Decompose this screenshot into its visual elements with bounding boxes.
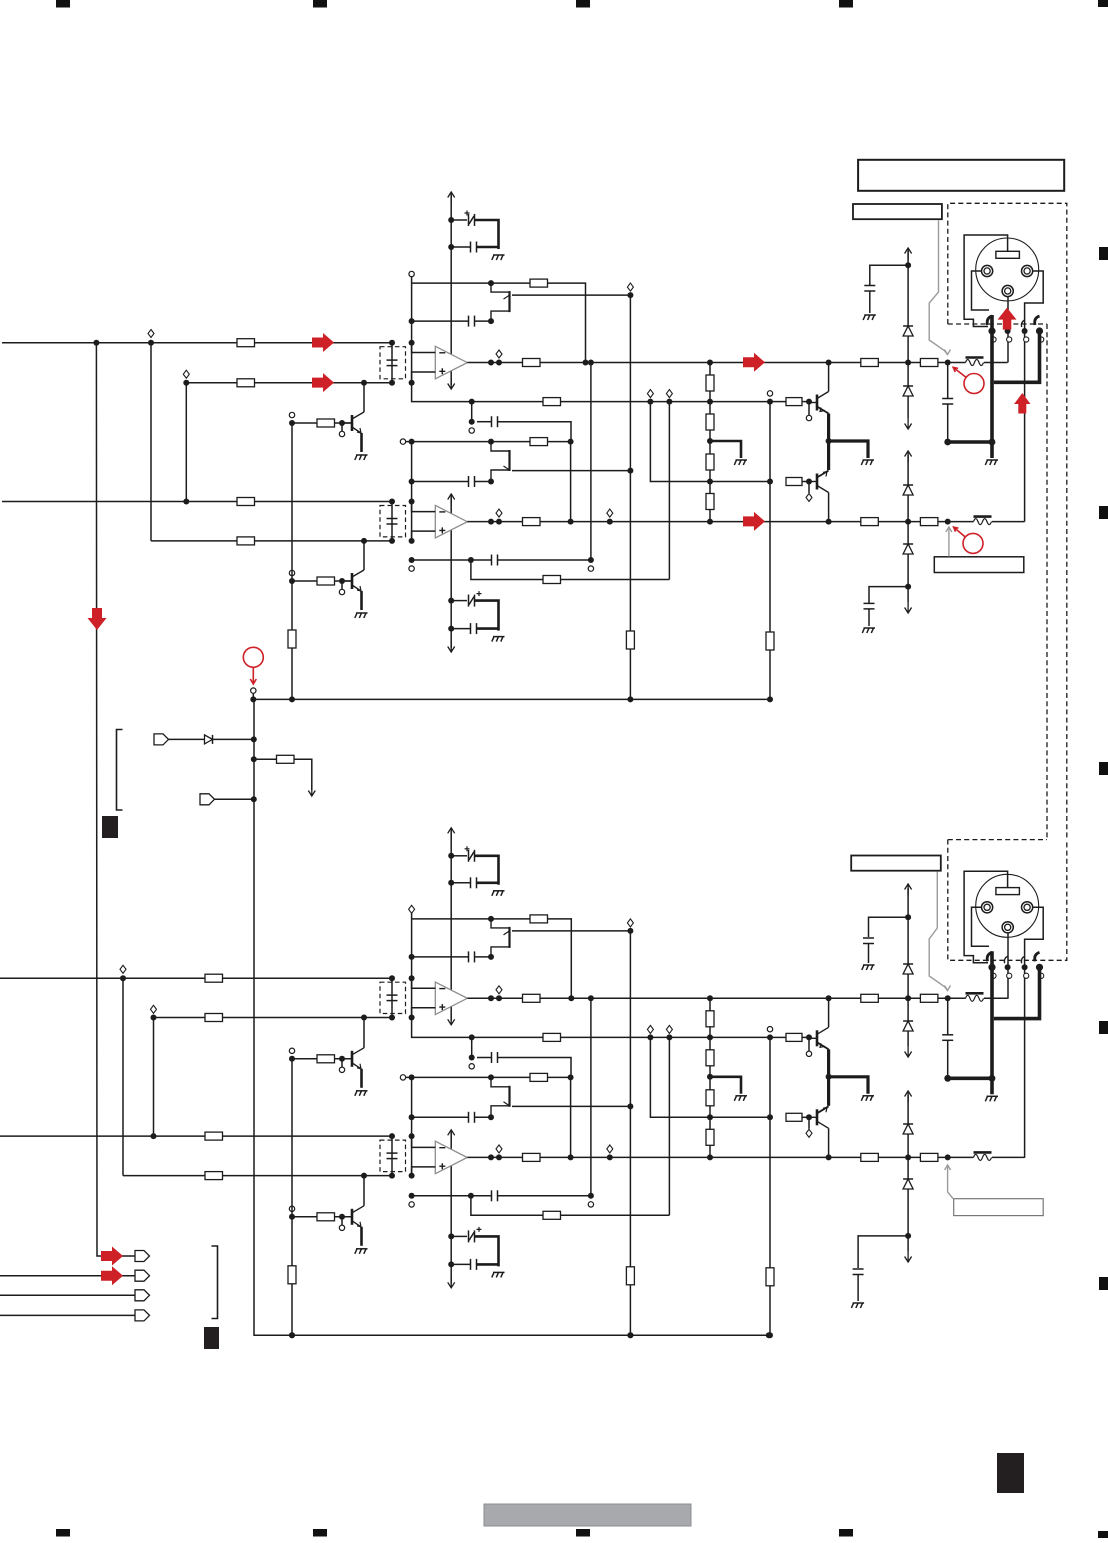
junction [707, 1114, 713, 1120]
wire output 1 [467, 362, 965, 364]
resistor R-o2b [920, 518, 938, 526]
junction [289, 578, 295, 584]
wire [291, 423, 293, 581]
connector tag C [135, 1290, 150, 1301]
junction [409, 954, 415, 960]
diode D3b [903, 1124, 913, 1134]
resistor R-o2a [861, 518, 879, 526]
junction [826, 519, 832, 525]
wire [391, 978, 393, 1017]
junction [361, 1015, 367, 1021]
wire [808, 1037, 810, 1050]
wire [947, 363, 949, 399]
junction [448, 1261, 454, 1267]
wire shell loop [964, 235, 1008, 327]
wire limiter rail [629, 295, 631, 631]
ground [734, 460, 747, 465]
wire ladder [709, 470, 711, 494]
capacitor C-cross [492, 555, 498, 566]
wire ladder [709, 430, 711, 454]
wire [471, 560, 543, 580]
arrow supply- [448, 641, 455, 652]
capacitor C-bypass- [471, 1259, 477, 1270]
terminal [806, 415, 811, 420]
resistor R-fb1 [530, 279, 548, 287]
dashed box input filter [380, 982, 406, 1013]
wire [984, 997, 1008, 999]
junction [183, 380, 189, 386]
junction [488, 439, 494, 445]
terminal [627, 919, 633, 927]
wire left bus vertical to CN input [96, 343, 135, 1256]
wire [475, 601, 499, 631]
wire [341, 1217, 343, 1225]
wire [668, 402, 670, 580]
junction [409, 1074, 415, 1080]
junction [469, 399, 475, 405]
label box part no B [851, 856, 941, 871]
wire [363, 1018, 365, 1048]
terminal [806, 1129, 812, 1137]
arrow V+ [905, 248, 912, 259]
resistor R-b2 [786, 478, 802, 486]
junction [469, 1055, 475, 1061]
wire [391, 502, 393, 541]
ferrite bead FB1 [966, 358, 984, 366]
wire op-amp plus [412, 531, 436, 541]
ground [492, 1272, 505, 1277]
wire [802, 1116, 809, 1118]
wire supply rail [450, 195, 452, 385]
jfet Q-limit2 [491, 442, 510, 480]
capacitor C-x1 [492, 1052, 498, 1063]
wire gate [512, 1105, 630, 1107]
resistor R-out2 [523, 518, 541, 526]
wire [471, 1037, 473, 1057]
wire op-amp plus [412, 1167, 436, 1176]
wire [907, 1134, 909, 1179]
wire to lower driver [650, 1037, 770, 1117]
junction [488, 954, 494, 960]
diode D2 [903, 386, 913, 396]
wire [451, 219, 467, 221]
wire pin1 to output [1007, 297, 1009, 363]
red callout to junction 2 [954, 527, 983, 553]
wire ladder [709, 363, 711, 376]
terminal [806, 494, 812, 502]
wire [412, 481, 469, 483]
dashed box input filter [380, 1140, 406, 1172]
wire [802, 401, 809, 403]
arrow supply+ [448, 494, 455, 505]
capacitor C-r1b [863, 938, 874, 944]
wire ladder [709, 391, 711, 414]
terminal [588, 1202, 593, 1207]
wire [770, 1036, 786, 1038]
wire [857, 1275, 859, 1302]
capacitor C-out [942, 1035, 953, 1041]
terminal [339, 1225, 344, 1230]
junction [905, 262, 911, 268]
wire gate [512, 470, 630, 472]
wire ladder [709, 1106, 711, 1130]
transistor Q-drv1 [809, 392, 829, 414]
capacitor C-bypass+ [465, 846, 475, 862]
wire rail- [907, 455, 909, 485]
resistor R-div [543, 398, 561, 406]
terminal [607, 1145, 613, 1153]
capacitor C-bypass- [471, 242, 477, 253]
resistor R-d1 [766, 632, 774, 650]
dashed box channel [1047, 324, 1067, 840]
transistor Q-drv2 [809, 471, 829, 493]
op-amp U1A [435, 346, 467, 379]
wire [412, 320, 469, 322]
ground [862, 628, 875, 633]
wire input 1 [2, 342, 392, 344]
wire [254, 758, 277, 760]
wire [122, 978, 124, 1175]
capacitor C-fb2 [469, 476, 475, 487]
wire [291, 1059, 293, 1217]
wire ladder [709, 998, 711, 1011]
resistor R3 [205, 1132, 223, 1140]
terminal [647, 1025, 653, 1033]
wire bias bus [253, 698, 770, 700]
ground [861, 1096, 874, 1101]
ground [985, 460, 998, 465]
junction [409, 499, 415, 505]
terminal [400, 1075, 405, 1080]
wire [808, 402, 810, 415]
junction [250, 696, 256, 702]
capacitor C-fb1 [469, 316, 475, 327]
connector XLR [976, 238, 1039, 301]
junction [583, 360, 589, 366]
wire [451, 882, 470, 884]
wire [907, 396, 909, 418]
capacitor C-bypass- [471, 623, 477, 634]
wire op-amp minus [412, 343, 436, 353]
capacitor C-filter [387, 1153, 398, 1159]
wire cross feedback [412, 1195, 492, 1197]
wire [785, 1116, 787, 1118]
wire bold emitter junction [829, 1077, 868, 1094]
wire [475, 856, 499, 885]
terminal [289, 1206, 294, 1211]
terminal [469, 428, 474, 433]
jfet Q-limit2 [491, 1077, 510, 1115]
diode D-mute [205, 735, 213, 744]
wire to lower driver [650, 402, 770, 482]
wire [769, 1037, 771, 1267]
junction [389, 1173, 395, 1179]
wire [215, 798, 254, 800]
resistor R-L3 [706, 1090, 714, 1106]
junction [627, 468, 633, 474]
resistor R-L4 [706, 494, 714, 510]
arrow supply- [448, 1277, 455, 1288]
resistor R-o2b [920, 1153, 938, 1161]
wire [947, 1040, 949, 1078]
wire bold center tap [710, 441, 741, 458]
capacitor C-fb1 [469, 951, 475, 962]
junction [496, 995, 502, 1001]
terminal [496, 986, 502, 994]
junction [389, 499, 395, 505]
junction [806, 1034, 812, 1040]
transistor Q-drv1 [809, 1027, 829, 1049]
wire [471, 402, 473, 422]
wire [451, 628, 470, 630]
wire [907, 495, 909, 544]
red callout circle mid [243, 647, 263, 684]
wire divider net [472, 401, 770, 403]
wire [292, 1058, 317, 1060]
junction [409, 1133, 415, 1139]
resistor R-L2 [706, 1050, 714, 1066]
junction [448, 1233, 454, 1239]
wire [992, 521, 1025, 523]
terminal [496, 509, 502, 517]
bracket [117, 730, 123, 811]
resistor R-o1b [920, 994, 938, 1002]
resistor R2 [205, 1014, 223, 1022]
junction [488, 519, 494, 525]
transistor Q (input mute) [342, 1048, 364, 1069]
red arrow [312, 373, 334, 392]
wire [769, 650, 771, 699]
diode D4b [903, 1179, 913, 1189]
junction [766, 1332, 772, 1338]
resistor R1 [205, 974, 223, 982]
resistor R-bias [288, 630, 296, 648]
red arrow input B [101, 1266, 123, 1285]
wire supply rail [450, 831, 452, 1021]
wire [341, 423, 343, 431]
wire [451, 855, 467, 857]
junction [389, 1133, 395, 1139]
wire [412, 1116, 469, 1118]
wire collector [828, 493, 830, 522]
junction [588, 557, 594, 563]
resistor R-b1 [786, 398, 802, 406]
transistor Q (input mute) [342, 412, 364, 433]
wire cross feedback [412, 559, 492, 561]
junction [488, 1154, 494, 1160]
arrow [308, 785, 315, 796]
junction [488, 479, 494, 485]
diode D1 [903, 326, 913, 336]
resistor R-base [317, 1213, 335, 1221]
wire [185, 383, 187, 502]
wire [411, 442, 413, 541]
wire V+ rail [907, 251, 909, 326]
junction [568, 1154, 574, 1160]
wire [477, 1263, 499, 1266]
junction [806, 1114, 812, 1120]
resistor R-L1 [706, 375, 714, 391]
junction [666, 399, 672, 405]
junction [409, 557, 415, 563]
wire [868, 944, 870, 964]
junction [588, 1193, 594, 1199]
footer title bar [484, 1504, 691, 1526]
wire [341, 1059, 343, 1067]
wire [858, 1236, 908, 1268]
wire [907, 974, 909, 1021]
terminal [666, 390, 672, 398]
junction [806, 479, 812, 485]
wire ladder [709, 1066, 711, 1090]
junction [93, 340, 99, 346]
wire bold emitter [827, 414, 830, 442]
wire feedback [548, 283, 586, 362]
terminal [120, 965, 126, 973]
terminal [400, 439, 405, 444]
resistor R-lim [626, 1267, 634, 1285]
wire feedback [548, 919, 572, 998]
dashed box input filter [380, 506, 406, 537]
resistor R-fb2 [530, 1073, 548, 1081]
wire collector [828, 1128, 830, 1157]
wire [291, 1217, 293, 1266]
terminal [469, 1064, 474, 1069]
resistor R-out1 [523, 359, 541, 367]
capacitor C-filter [387, 519, 398, 525]
wire [869, 291, 871, 313]
junction [409, 1015, 415, 1021]
capacitor C-fb2 [469, 1112, 475, 1123]
wire [802, 481, 809, 483]
capacitor C-filter [387, 995, 398, 1001]
wire bold center tap [710, 1077, 741, 1094]
wire [150, 343, 152, 541]
wire [802, 1036, 809, 1038]
junction [361, 380, 367, 386]
resistor R-cross [543, 1211, 561, 1219]
junction [409, 318, 415, 324]
arrow [905, 418, 912, 429]
junction [627, 1332, 633, 1338]
junction [251, 736, 257, 742]
wire [947, 999, 949, 1035]
resistor R4 [237, 537, 255, 545]
arrow [905, 1091, 912, 1102]
junction [568, 1074, 574, 1080]
wire [561, 579, 670, 581]
wire ladder [709, 1027, 711, 1050]
junction [389, 380, 395, 386]
junction [945, 519, 951, 525]
terminal [496, 350, 502, 358]
ground [355, 613, 368, 618]
terminal [339, 431, 344, 436]
wire [590, 998, 592, 1196]
wire [869, 917, 909, 937]
terminal [496, 1145, 502, 1153]
junction [806, 399, 812, 405]
wire [475, 1116, 492, 1118]
junction [588, 995, 594, 1001]
wire supply rail [450, 1133, 452, 1284]
resistor R-cross [543, 576, 561, 584]
wire input 3 [2, 501, 392, 503]
junction [469, 1034, 475, 1040]
terminal [339, 1067, 344, 1072]
wire [252, 693, 254, 699]
wire op-amp minus [412, 502, 436, 512]
wire [411, 1077, 413, 1175]
wire emitter [360, 1069, 363, 1088]
terminal [767, 1027, 772, 1032]
wire op-amp plus [412, 372, 436, 383]
red arrow [312, 333, 334, 352]
junction [707, 995, 713, 1001]
connector tag B [135, 1270, 150, 1281]
ferrite bead FB2 [974, 1152, 992, 1160]
wire [213, 738, 254, 740]
arrow supply+ [448, 192, 455, 203]
junction [627, 928, 633, 934]
junction [496, 1154, 502, 1160]
wire pin3 [972, 907, 990, 946]
junction [627, 292, 633, 298]
leader line up B [948, 1165, 953, 1199]
wire [363, 383, 365, 412]
wire [907, 1189, 909, 1236]
wire [770, 401, 786, 403]
diode D2b [903, 1021, 913, 1031]
wire collector [828, 363, 830, 392]
junction [488, 1114, 494, 1120]
arrow V- B [905, 1251, 912, 1262]
junction [389, 340, 395, 346]
channel B circuit [0, 828, 1025, 1338]
wire bold shield [990, 951, 994, 1078]
op-amp U1A [435, 982, 467, 1015]
junction [568, 519, 574, 525]
terminal [666, 1025, 672, 1033]
diode D1b [903, 964, 913, 974]
junction [627, 1103, 633, 1109]
wire input 1 [0, 977, 392, 979]
wire [769, 402, 771, 632]
wire [907, 1031, 909, 1046]
wire output 1 [467, 997, 965, 999]
junction [448, 217, 454, 223]
label box title [858, 160, 1064, 191]
junction [707, 479, 713, 485]
red arrow input A [101, 1247, 123, 1266]
wire collector [828, 998, 830, 1027]
junction [488, 280, 494, 286]
dashed box XLR [948, 840, 1067, 961]
resistor R-o1a [861, 994, 879, 1002]
red arrow down feed [88, 608, 107, 630]
junction [289, 696, 295, 702]
junction [339, 1056, 345, 1062]
junction [826, 1154, 832, 1160]
transistor Q-drv2 [809, 1106, 829, 1128]
label box note [934, 557, 1024, 573]
wire [477, 1057, 492, 1059]
wire emitter [360, 433, 363, 452]
junction [496, 360, 502, 366]
arrow [905, 1046, 912, 1057]
wire [869, 587, 908, 603]
wire feedback [412, 282, 530, 284]
